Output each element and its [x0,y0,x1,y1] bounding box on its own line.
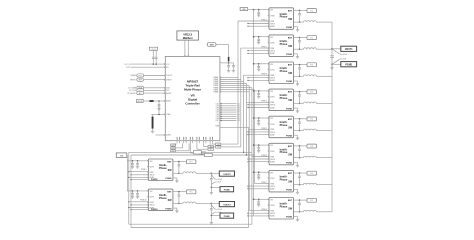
ground U9 PGND [173,178,179,183]
svg-text:BST: BST [288,173,293,175]
wire U9 SW [294,211,304,213]
wire CS3 stub [216,107,240,109]
power stage U5 (phase 4) [268,89,294,111]
svg-text:2x 470uF: 2x 470uF [215,179,222,181]
svg-text:PGND: PGND [165,208,172,210]
svg-text:CS7: CS7 [237,116,240,118]
wire U4 AGND [247,80,269,81]
resistor R1 (series) [228,57,230,62]
capacitor C5 [152,50,155,64]
svg-text:Phase: Phase [280,150,288,154]
wire U5 SW [294,102,304,104]
svg-text:CS4: CS4 [237,110,240,112]
svg-text:Phase: Phase [280,177,288,181]
capacitor CinA x=137.5 [136,161,139,168]
wire VIN feed U6 [253,117,269,119]
wire sense VOUT1 [332,49,347,56]
wire U2 AGND [247,26,269,27]
svg-text:PGND: PGND [165,178,172,180]
wire UA pin2 tap [130,174,148,175]
wire mailbox SDA [184,55,185,56]
wire VREF pin [151,114,170,117]
wire U8 AGND [247,188,269,189]
snubber R-C box U4 [307,63,317,67]
mailbox block (VR12.5 Mailbox) [177,31,199,40]
svg-text:VR12.5: VR12.5 [183,32,192,36]
power stage U9 (rail 2) [147,159,173,181]
wire VIN rail vertical [253,10,255,216]
svg-text:PWM2: PWM2 [214,79,219,81]
capacitor Cin7 [257,172,260,179]
svg-text:PWM: PWM [150,202,155,204]
svg-text:PGND2: PGND2 [151,179,158,181]
wire PWM5 tap to U6 [249,128,269,130]
wire L9 to output bus [196,172,211,174]
svg-text:PWM8: PWM8 [214,91,219,93]
resistor box R9 [193,151,201,154]
snubber R-C box U3 [307,36,317,40]
inductor L2 [304,21,317,22]
capacitor C7 [157,104,160,110]
wire VCC node [220,61,234,63]
wire VIN feed U7 [253,144,269,146]
wire U3 BST node [294,37,308,39]
svg-text:PG1: PG1 [139,75,142,77]
wire UB pin4 tap [130,209,148,210]
capacitor C7b (BST) [298,146,301,159]
inductor L9 [183,172,196,173]
svg-text:PWM5: PWM5 [214,85,219,87]
snubber R-C box U6 [307,117,317,121]
wire mailbox SCL [187,40,189,56]
snubber R-C box U9 [186,160,196,164]
net box VOUT3 [211,202,234,207]
svg-text:Phase: Phase [280,204,288,208]
wire CS8 stub [216,118,240,120]
controller U1 MP2927 [165,57,220,141]
wire L10 to output bus [196,202,211,204]
wire PWM6 from U1 [214,87,252,89]
snubber R-C box U10 [186,190,196,194]
snubber R-C box U8 [307,171,317,175]
wire PWM8 tap to U9 [249,210,269,212]
ground sense3 [210,223,213,225]
wire sense PGND [332,59,346,65]
wire L6 to output bus [317,130,333,132]
U1 bottom pins pair 3 [190,137,193,143]
inductor L7 [304,156,317,157]
net box PGND2 [211,187,234,192]
svg-text:PWM4: PWM4 [214,83,219,85]
capacitor C4b (BST) [298,65,301,78]
wire UA pin3 tap [128,177,148,178]
svg-text:SCL: SCL [166,90,169,92]
inductor L9 [304,210,317,211]
wire CS6 stub [216,114,240,116]
capacitor C6 [155,50,158,64]
svg-text:Phase: Phase [280,42,288,46]
svg-text:PWM6: PWM6 [214,87,219,89]
wire sense gnd3 [211,212,221,215]
capacitor C3b (BST) [298,38,301,51]
svg-text:BST: BST [288,146,293,148]
resistor R2 (to gnd) [151,114,154,133]
capacitor Cin5 [257,118,260,125]
wire bottom pin elbow A [197,143,208,149]
wire UB pin2 tap [130,204,148,205]
wire U7 SMOD [247,158,269,159]
capacitor C9b (BST) [298,200,301,213]
capacitor CinB x=137.5 [136,191,139,198]
wire L2 to output bus [317,21,333,23]
svg-text:Phase: Phase [280,123,288,127]
inductor L3 [304,48,317,49]
svg-text:PWM: PWM [270,156,275,158]
wire CS9 stub [216,120,241,122]
wire U9 AGND [247,215,269,216]
wire L4 to output bus [317,75,333,77]
capacitor C5b (BST) [298,92,301,105]
wire UB pin3 tap [128,207,148,208]
resistor R_ADDR [150,100,172,103]
wire sense VOUT3 [211,205,222,212]
wire CS4 stub [216,109,240,111]
wire U9 BST node [173,161,187,163]
svg-text:24k9: 24k9 [171,145,174,147]
ground U4 PGND [294,81,300,86]
svg-text:BST: BST [167,192,172,194]
wire CS5 stub [216,112,240,114]
resistor box R5 [171,143,189,152]
wire left vertical 1 [128,152,130,224]
power stage U4 (phase 3) [268,62,294,84]
inductor L8 [304,183,317,184]
net label V3P3 (rounded) [207,43,216,47]
svg-text:PWM: PWM [270,75,275,77]
power stage U8 (phase 7) [268,170,294,192]
ground output bus [330,64,333,69]
resistor box R3 [171,143,176,147]
svg-text:PGND: PGND [286,108,293,110]
svg-text:ALT: ALT [139,92,142,95]
svg-text:8x 22uF: 8x 22uF [340,59,346,61]
capacitor Cin4 [257,91,260,98]
svg-text:CS2: CS2 [237,105,240,107]
svg-text:CS1: CS1 [237,103,240,105]
wire U2 SMOD [247,23,269,24]
capacitor Cout3 [210,203,213,222]
wire U4 BST node [294,64,308,66]
svg-text:2x 22uF: 2x 22uF [215,182,221,184]
svg-text:TSEN: TSEN [215,126,219,128]
capacitor Cout2 [210,173,213,192]
wire U5 BST node [294,91,308,93]
wire L8 to output bus [317,184,333,186]
wire PWM2 from U1 [214,79,241,81]
svg-text:PGND: PGND [286,27,293,29]
wire ADDR divider column [158,101,160,114]
wire VCC pin [125,63,171,66]
wire U4 SMOD [247,77,269,78]
wire PWM bus vertical x=254.6 [254,90,256,184]
svg-text:BST: BST [288,38,293,40]
snubber R-C box U9 [307,198,317,202]
U1 bottom pins pair 1 [177,137,180,143]
svg-text:PGND: PGND [286,217,293,219]
svg-text:VCC_IN: VCC_IN [125,64,132,66]
svg-text:VREF: VREF [166,114,170,116]
wire L5 to output bus [317,102,333,104]
wire CS7 stub [216,116,240,118]
net box VOUT1 [332,46,357,51]
svg-text:PGND: PGND [224,216,231,218]
svg-text:PWM 3: PWM 3 [261,74,267,76]
svg-text:8x 470uF: 8x 470uF [340,54,347,56]
wire PWM bus vertical x=246.4 [245,84,247,155]
snubber R-C box U5 [307,90,317,94]
svg-text:PWM: PWM [270,21,275,23]
svg-text:BST: BST [288,200,293,202]
svg-text:PWM: PWM [270,48,275,50]
svg-text:PWRGD: PWRGD [130,75,137,77]
svg-text:PWM 2: PWM 2 [261,47,267,49]
capacitor CinB x=132.5 [131,191,134,198]
svg-text:CS4: CS4 [216,110,219,112]
svg-text:BST: BST [288,119,293,121]
inductor L6 [304,129,317,130]
capacitor Cin2 [257,37,260,44]
svg-text:PWM1: PWM1 [214,77,219,79]
svg-text:Mailbox: Mailbox [183,36,194,40]
svg-text:VOUT3: VOUT3 [223,204,231,206]
svg-text:VIN: VIN [120,155,124,157]
wire PWM1 from U1 [214,77,238,79]
wire PWM7 from U1 [214,89,255,91]
resistor box R10 [204,153,212,156]
wire U4 SW [294,75,304,77]
svg-text:PWM 9: PWM 9 [141,169,147,171]
net label VIN (left) [116,153,127,158]
wire U9 SMOD [247,213,269,214]
power stage U2 (phase 1) [268,8,294,30]
ground U8 PGND [294,189,300,194]
svg-text:CS3: CS3 [237,107,240,109]
node N2 junction [211,173,213,175]
svg-text:VCC5: VCC5 [126,67,130,69]
wire I2C_ALERT [127,92,171,96]
wire PWM4 tap to U5 [246,101,269,103]
capacitor Cout (bus) [330,56,334,58]
svg-text:PGOOD: PGOOD [166,75,173,77]
svg-text:BST: BST [167,162,172,164]
wire PWM bus vertical x=243.6 [243,75,245,152]
svg-text:CS1: CS1 [216,103,219,105]
wire PWM5 from U1 [214,85,250,87]
capacitor Cin3 [257,64,260,71]
ground U9 PGND [294,217,300,222]
svg-text:Multi-Phase: Multi-Phase [184,88,201,92]
svg-text:Phase: Phase [280,15,288,19]
inductor L5 [304,102,317,103]
svg-text:PWM3: PWM3 [214,81,219,83]
net box VOUT2 [211,171,234,176]
wire U10 SW [173,202,183,204]
ground U7 PGND [294,162,300,167]
snubber R-C box U2 [307,9,317,13]
wire U7 BST node [294,145,308,147]
svg-text:VOUT2: VOUT2 [223,174,231,176]
net box PGND3 [211,213,234,218]
net label VRHOT [130,78,172,82]
U1 bottom pins pair 4 [196,137,199,143]
wire L7 to output bus [317,157,333,159]
svg-text:PGND: PGND [286,163,293,165]
power stage U3 (phase 2) [268,35,294,57]
wire I2C_SDATA [128,86,170,90]
svg-text:10k: 10k [201,153,204,155]
svg-text:I2C_SCLK: I2C_SCLK [129,90,136,92]
wire L3 to output bus [317,48,333,50]
value box R8 [208,148,213,151]
wire U7 SW [294,157,304,159]
wire U5 SMOD [247,104,269,105]
svg-text:VOUT1: VOUT1 [345,49,353,51]
wire PWM bus vertical x=249.2 [248,86,250,211]
power stage U7 (phase 6) [268,143,294,165]
wire U2 SW [294,21,304,23]
svg-text:1k: 1k [210,149,212,151]
capacitor C6b (BST) [298,119,301,132]
wire VIN feed U8 [253,171,269,173]
wire V3P3 feed [216,45,229,57]
label box ADDR [137,99,150,103]
wire PWM10 run [131,154,255,155]
wire L9 to output bus [317,211,333,213]
svg-text:PGND: PGND [286,81,293,83]
svg-text:PWM: PWM [270,183,275,185]
svg-text:CS7: CS7 [216,116,219,118]
wire VIN feed UB [127,190,148,192]
wire U7 AGND [247,161,269,162]
wire VOUT1 bus [331,22,333,212]
svg-text:PWM 8: PWM 8 [261,209,267,211]
wire VIN feed UA [127,160,148,162]
node N3 junction [211,203,213,205]
wire PWM6 tap to U7 [252,156,269,158]
capacitor C2 [232,63,235,72]
wire bottom bus 1 [129,223,252,225]
wire VIN feed U5 [253,90,269,92]
wire EN pin [126,67,169,69]
svg-text:PWM 6: PWM 6 [261,155,267,157]
U1 bottom pins pair 2 [183,137,186,143]
svg-text:Phase: Phase [159,196,167,200]
wire sense VOUT2 [211,175,222,182]
svg-text:SMOD: SMOD [150,175,156,177]
wire U6 AGND [247,134,269,135]
svg-text:CS8: CS8 [237,118,240,120]
ground U2 PGND [294,27,300,32]
svg-text:PGND: PGND [345,65,352,67]
capacitor C10b (BST) [178,192,181,205]
capacitor CinA x=132.5 [131,161,134,168]
resistor box R4 [171,143,183,149]
power stage U6 (phase 5) [268,116,294,138]
wire PWM2 tap to U3 [241,47,269,49]
svg-text:PWM 5: PWM 5 [261,128,267,130]
wire PWM1 tap to U2 [238,20,269,22]
capacitor C9b (BST) [178,162,181,175]
net label PWRGD [130,74,173,78]
svg-text:CS2: CS2 [216,105,219,107]
wire I2C_SCLK [129,89,169,93]
wire U6 BST node [294,118,308,120]
wire U8 BST node [294,172,308,174]
svg-text:PWM: PWM [270,211,275,213]
net label VIN (top) [240,8,248,11]
wire PWM bus vertical x=251.9 [251,88,253,224]
svg-text:PWM 7: PWM 7 [261,182,267,184]
wire U8 SW [294,184,304,186]
wire PWM3 tap to U4 [244,74,269,76]
wire U3 AGND [247,53,269,54]
svg-text:24k9: 24k9 [171,148,174,150]
wire UA pin4 tap [130,179,148,180]
wire U6 SMOD [247,131,269,132]
wire UA PWM tap [128,171,148,172]
wire AGND pin [156,134,172,137]
wire U2 BST node [294,10,308,12]
svg-text:VRHOT#: VRHOT# [130,79,136,81]
wire U6 SW [294,130,304,132]
wire left vertical 2 [130,155,132,228]
svg-text:PWM 10: PWM 10 [140,200,147,202]
power stage U10 (rail 3) [147,189,173,211]
svg-text:Phase: Phase [159,166,167,170]
svg-text:CS8: CS8 [216,118,219,120]
wire UB PWM tap [128,201,148,202]
net label VSEN2 [213,143,239,146]
wire sense gnd2 [211,182,221,185]
wire VIN left rail [126,155,129,191]
wire CS2 stub [216,105,240,107]
wire PWM9 run [129,152,252,153]
U1 bottom pins pair 6 [210,137,213,143]
capacitor C8b (BST) [298,173,301,186]
inductor L10 [183,202,196,203]
svg-text:Phase: Phase [280,96,288,100]
svg-text:VS3: VS3 [217,147,220,149]
ground U3 PGND [294,54,300,59]
svg-text:Controller: Controller [185,102,200,106]
wire U9 SW [173,172,183,174]
wire PWM bus vertical x=240.8 [240,48,242,147]
svg-text:CS6: CS6 [216,114,219,116]
svg-text:Phase: Phase [280,69,288,73]
svg-text:PWM: PWM [270,129,275,131]
wire PWM3 from U1 [214,81,244,83]
ground U6 PGND [294,135,300,140]
svg-text:PWM: PWM [270,102,275,104]
svg-text:CS6: CS6 [237,114,240,116]
wire PWM bus vertical x=238 [237,21,239,144]
svg-text:SMOD: SMOD [150,205,156,207]
wire VIN feed U9 [253,199,269,201]
value box R6 [190,143,205,155]
svg-text:CS5: CS5 [237,112,240,114]
svg-text:PGND: PGND [224,190,231,192]
capacitor C2b (BST) [298,10,301,23]
